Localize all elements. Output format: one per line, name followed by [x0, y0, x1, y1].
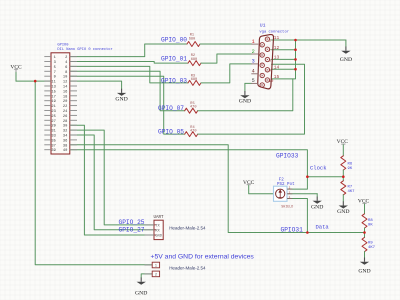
svg-text:R7: R7 — [348, 186, 353, 190]
svg-text:22: 22 — [63, 105, 67, 109]
svg-text:31: 31 — [51, 130, 56, 134]
svg-text:+5V and GND for external devic: +5V and GND for external devices — [151, 254, 255, 261]
svg-text:4K7: 4K7 — [368, 246, 376, 250]
svg-text:R8: R8 — [368, 219, 373, 223]
svg-text:680: 680 — [189, 37, 195, 41]
svg-text:25: 25 — [51, 115, 55, 119]
svg-text:Clock: Clock — [310, 165, 327, 172]
svg-text:40: 40 — [63, 149, 67, 153]
svg-text:GPIO_07: GPIO_07 — [158, 105, 184, 112]
svg-text:17: 17 — [51, 95, 55, 99]
svg-text:15: 15 — [274, 74, 280, 80]
svg-text:GPIO_01: GPIO_01 — [161, 55, 187, 62]
svg-text:5: 5 — [54, 66, 56, 70]
svg-text:U1: U1 — [260, 23, 266, 29]
svg-text:3: 3 — [54, 61, 56, 65]
svg-text:GPIO31: GPIO31 — [281, 226, 304, 233]
svg-text:VCC: VCC — [243, 180, 255, 186]
svg-text:4K7: 4K7 — [348, 190, 356, 194]
svg-text:11: 11 — [274, 35, 280, 41]
svg-text:3: 3 — [252, 59, 255, 65]
svg-text:vga connector: vga connector — [259, 30, 289, 35]
svg-text:GND: GND — [155, 235, 163, 239]
svg-text:26: 26 — [63, 115, 67, 119]
svg-text:39: 39 — [51, 149, 55, 153]
svg-text:16: 16 — [63, 90, 67, 94]
svg-text:19: 19 — [51, 100, 55, 104]
svg-text:23: 23 — [51, 110, 55, 114]
svg-text:15: 15 — [51, 90, 55, 94]
svg-text:680: 680 — [191, 58, 197, 62]
svg-text:GPIO33: GPIO33 — [276, 153, 299, 160]
svg-text:38: 38 — [63, 144, 67, 148]
svg-text:9K: 9K — [348, 167, 353, 171]
svg-text:14: 14 — [63, 86, 68, 90]
svg-text:24: 24 — [63, 110, 68, 114]
svg-text:1: 1 — [252, 39, 255, 45]
svg-text:GND: GND — [358, 269, 370, 275]
svg-text:VCC: VCC — [358, 198, 370, 204]
svg-text:VCC: VCC — [337, 139, 349, 145]
svg-text:2: 2 — [65, 56, 67, 60]
svg-text:GND: GND — [340, 57, 352, 63]
svg-text:13: 13 — [51, 86, 55, 90]
svg-text:GND: GND — [311, 204, 323, 210]
svg-text:34: 34 — [63, 135, 68, 139]
svg-text:TX: TX — [155, 225, 160, 229]
svg-text:470: 470 — [190, 106, 196, 110]
svg-text:29: 29 — [51, 125, 55, 129]
svg-text:9K: 9K — [368, 224, 373, 228]
svg-text:2: 2 — [252, 49, 255, 55]
svg-text:35: 35 — [51, 139, 55, 143]
svg-text:36: 36 — [63, 139, 67, 143]
svg-text:30: 30 — [63, 125, 67, 129]
svg-text:33: 33 — [51, 135, 55, 139]
svg-text:5: 5 — [252, 78, 255, 84]
svg-text:Data: Data — [316, 224, 330, 231]
svg-text:GND: GND — [115, 96, 127, 102]
svg-text:PS2 Pot: PS2 Pot — [277, 183, 295, 187]
svg-text:GPIO_27: GPIO_27 — [119, 227, 145, 234]
svg-text:18: 18 — [63, 95, 67, 99]
svg-text:10: 10 — [269, 80, 274, 84]
svg-text:GND: GND — [337, 209, 349, 215]
svg-text:32: 32 — [63, 130, 67, 134]
svg-text:470: 470 — [190, 130, 196, 134]
svg-text:6: 6 — [65, 66, 67, 70]
svg-text:4: 4 — [252, 69, 255, 75]
svg-text:12: 12 — [63, 81, 67, 85]
svg-text:GPIO_25: GPIO_25 — [119, 219, 145, 226]
svg-text:20: 20 — [63, 100, 67, 104]
svg-text:8: 8 — [65, 71, 67, 75]
svg-text:UART: UART — [154, 216, 165, 220]
svg-text:R9: R9 — [368, 242, 373, 246]
svg-text:SHIELD: SHIELD — [281, 204, 293, 208]
svg-text:VCC: VCC — [10, 64, 22, 70]
svg-text:12: 12 — [274, 45, 280, 51]
svg-text:GND: GND — [239, 99, 251, 105]
svg-text:DIL Nano GPIO 0 connector: DIL Nano GPIO 0 connector — [57, 48, 112, 52]
svg-text:28: 28 — [63, 120, 67, 124]
svg-text:Header-Male-2.54: Header-Male-2.54 — [169, 226, 206, 231]
svg-text:GND: GND — [135, 291, 147, 297]
svg-text:9: 9 — [54, 76, 56, 80]
svg-text:27: 27 — [51, 120, 55, 124]
svg-text:11: 11 — [51, 81, 56, 85]
svg-text:14: 14 — [274, 64, 280, 70]
svg-text:7: 7 — [54, 71, 56, 75]
svg-text:10: 10 — [63, 76, 67, 80]
svg-text:GPIO_03: GPIO_03 — [161, 77, 187, 84]
svg-text:21: 21 — [51, 105, 56, 109]
svg-text:R6: R6 — [348, 163, 353, 167]
svg-text:Header-Male-2.54: Header-Male-2.54 — [169, 265, 206, 270]
svg-text:680: 680 — [191, 78, 197, 82]
svg-text:13: 13 — [274, 55, 280, 61]
svg-text:RX: RX — [155, 229, 160, 233]
svg-text:GPIO_00: GPIO_00 — [161, 37, 187, 44]
svg-text:GPIO_05: GPIO_05 — [158, 128, 184, 135]
svg-text:37: 37 — [51, 144, 55, 148]
